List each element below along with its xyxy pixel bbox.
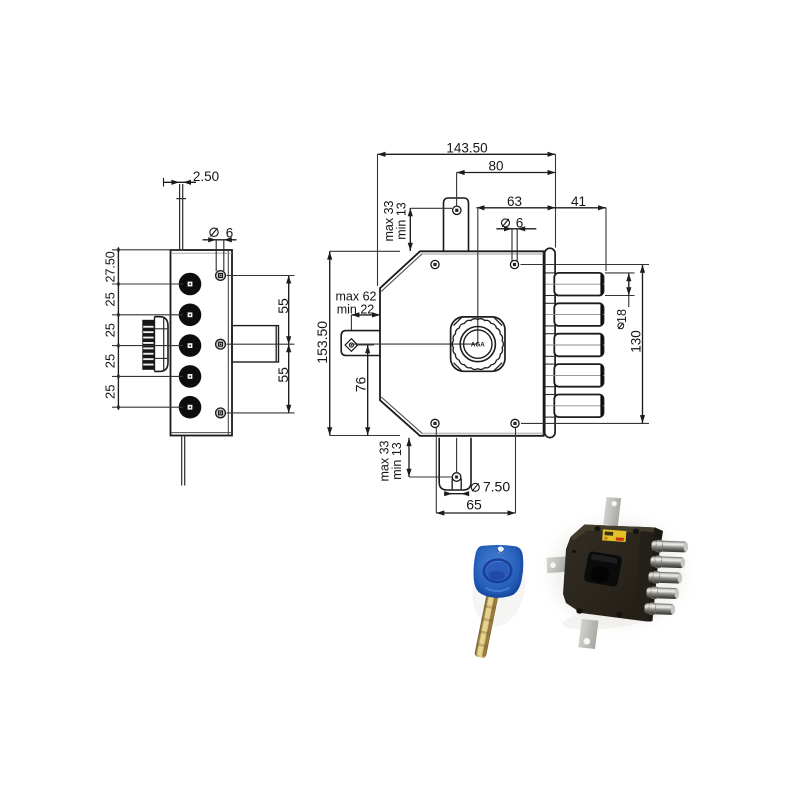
front view: cylinder escutcheon rounded square — [451, 317, 505, 371]
dimension 143.50 (top) — [378, 153, 556, 155]
svg-text:min 13: min 13 — [390, 442, 404, 480]
svg-text:max 62: max 62 — [336, 289, 377, 303]
svg-text:7.50: 7.50 — [483, 478, 510, 494]
photo: case screw holes — [595, 526, 601, 531]
photo: bottom strap — [578, 619, 598, 649]
photo: lock body right side face — [648, 528, 664, 622]
svg-text:80: 80 — [488, 159, 503, 174]
front view: bottom mounting tab with slot — [439, 438, 471, 490]
photo: left strap — [547, 556, 569, 573]
front view: cylinder centerlines — [477, 209, 479, 344]
photo: faint backdrop shading — [532, 505, 702, 641]
side view: fixing screw 3 — [216, 408, 226, 418]
svg-text:6: 6 — [516, 215, 524, 230]
svg-text:76: 76 — [353, 377, 369, 393]
svg-text:41: 41 — [571, 194, 586, 209]
dimension 76 — [367, 345, 369, 436]
side view: bottom control rod — [181, 436, 183, 486]
photo: chrome deadbolt 4 — [646, 587, 679, 600]
front view: escutcheon corner chamfer marks — [454, 317, 463, 326]
side view: deadbolt pin 5 (end-on) — [179, 396, 202, 419]
front view: cylinder face circles — [460, 327, 495, 362]
side view: knurled thumb-turn knob — [142, 317, 168, 372]
dimension 130 (right) — [642, 265, 644, 424]
side view: deadbolt pin 2 (end-on) — [179, 304, 202, 327]
photo: key blade (brass) — [474, 593, 498, 659]
svg-text:25: 25 — [103, 323, 118, 337]
photo: chrome deadbolt 2 — [650, 556, 685, 569]
svg-text:25: 25 — [103, 385, 118, 399]
photo: chrome deadbolt 3 — [648, 571, 682, 584]
side view: fixing screw 1 — [216, 271, 226, 281]
dimension 2.50 (rod) — [164, 181, 197, 183]
photo: key head (blue) — [473, 544, 524, 599]
photo: chrome deadbolt 5 — [644, 602, 675, 615]
side view: fixing screw 2 — [216, 339, 226, 349]
side view: deadbolt pin 3 (end-on) — [179, 334, 202, 357]
photo: cylinder guard (black) — [584, 551, 623, 587]
svg-text:25: 25 — [103, 354, 118, 368]
svg-text:min 13: min 13 — [395, 202, 409, 240]
dimension 80 — [457, 172, 556, 174]
side view: deadbolt pin 1 (end-on) — [179, 273, 202, 296]
front view: chamfer inner edge lines — [381, 254, 422, 292]
front view: case fixing screws (4) — [431, 260, 439, 268]
dimension 153.50 (left) — [329, 251, 331, 435]
photo: lock body (dark case) — [563, 525, 663, 622]
svg-text:55: 55 — [275, 298, 291, 314]
dimension 63 — [477, 207, 556, 209]
svg-text:55: 55 — [275, 367, 291, 383]
side view: middle bolt protruding (side profile) — [232, 326, 279, 362]
svg-text:AGA: AGA — [471, 342, 485, 349]
svg-text:27.50: 27.50 — [104, 251, 118, 282]
photo: lock body top face highlight — [571, 525, 656, 541]
side view: lock body plate — [171, 250, 233, 436]
front view: deadbolts (5) — [546, 273, 605, 296]
svg-text:63: 63 — [507, 194, 522, 209]
svg-text:130: 130 — [629, 330, 644, 353]
svg-text:153.50: 153.50 — [314, 321, 330, 364]
photo: bolt housing plate — [635, 531, 655, 621]
svg-text:65: 65 — [466, 497, 482, 513]
side view: deadbolt pin 4 (end-on) — [179, 365, 202, 388]
svg-text:25: 25 — [103, 292, 118, 306]
front view: lock case outline with chamfered left corners — [380, 251, 544, 435]
photo: brand label (yellow) — [602, 529, 626, 542]
dimension 55 / 55 (side view right) — [288, 276, 290, 413]
dimension Ø7.50 (bottom tab slot) — [444, 493, 465, 495]
dimension Ø18 (bolt) — [628, 273, 630, 296]
dimension Ø6 (side view screw slot) — [203, 239, 237, 241]
dimension Ø6 (front, cover screw slot) — [496, 228, 536, 230]
front view: left mounting tab with diamond screw — [341, 331, 380, 356]
dimension 65 (bottom) — [436, 512, 515, 514]
front view: faceplate bar — [545, 248, 555, 437]
dimension 41 — [556, 207, 607, 209]
dimension chain 27.50 / 25 x4 (left) — [117, 250, 119, 407]
front view: cylinder scalloped ring — [452, 319, 503, 370]
svg-text:18: 18 — [615, 309, 629, 323]
photo: key head hole — [497, 546, 504, 553]
svg-text:143.50: 143.50 — [446, 141, 487, 156]
svg-text:6: 6 — [226, 226, 234, 241]
front view: top mounting tab — [444, 198, 469, 251]
photo: chrome deadbolt 1 — [651, 540, 688, 553]
side view: top control rod — [179, 184, 181, 250]
svg-text:2.50: 2.50 — [193, 169, 219, 184]
photo: top strap — [603, 497, 621, 526]
photo: key head emboss ring — [483, 559, 512, 583]
